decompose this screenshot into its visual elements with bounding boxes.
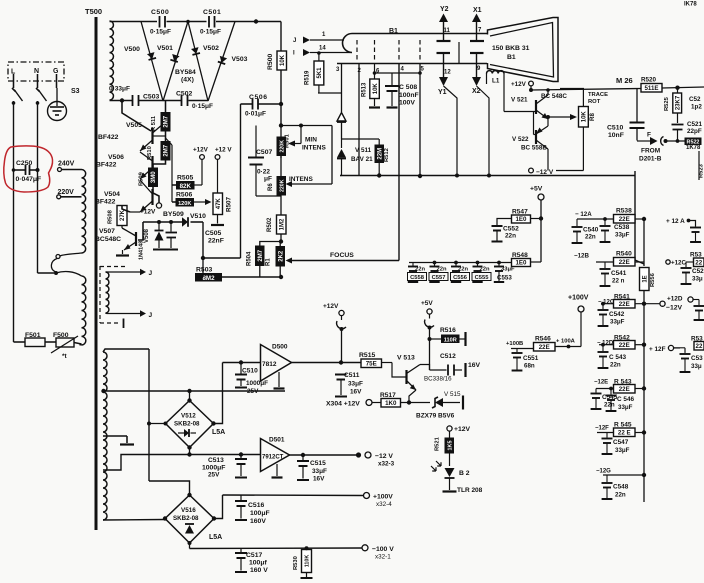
svg-text:1E0: 1E0	[515, 260, 527, 267]
capacitor C541	[604, 262, 606, 268]
svg-text:10K: 10K	[582, 111, 588, 123]
svg-text:R 511: R 511	[151, 115, 157, 131]
svg-text:100μF: 100μF	[250, 510, 270, 517]
svg-text:INTENS: INTENS	[289, 176, 314, 183]
svg-text:+ 12F: + 12F	[649, 346, 666, 353]
svg-text:33μF: 33μF	[615, 232, 630, 239]
svg-text:+12V: +12V	[323, 303, 339, 310]
svg-text:22nF: 22nF	[208, 238, 224, 245]
svg-text:BF422: BF422	[98, 134, 119, 141]
svg-text:−12F: −12F	[595, 426, 609, 432]
svg-text:BY509: BY509	[163, 211, 184, 218]
svg-text:C558: C558	[410, 275, 425, 281]
svg-text:511E: 511E	[644, 85, 658, 92]
terminal block L N G	[8, 62, 64, 81]
svg-text:33μF: 33μF	[501, 267, 515, 273]
svg-text:x32-3: x32-3	[378, 461, 395, 468]
D500 input wire	[223, 362, 261, 364]
svg-text:B1: B1	[507, 54, 516, 61]
EHT secondary winding	[110, 21, 114, 100]
svg-text:V 511: V 511	[355, 147, 372, 154]
svg-text:R1: R1	[266, 258, 272, 266]
wire EHT to R500	[280, 22, 282, 52]
D500 output wire	[292, 362, 362, 364]
svg-text:22E: 22E	[619, 342, 630, 349]
CRT socket outline	[343, 34, 352, 53]
svg-text:8M2: 8M2	[202, 275, 215, 282]
svg-text:+ 12 A: + 12 A	[666, 218, 685, 225]
-12V terminal	[529, 168, 534, 173]
wire pin6 down	[374, 64, 376, 79]
svg-text:1K78: 1K78	[686, 145, 701, 151]
svg-text:0·33μF: 0·33μF	[109, 86, 130, 93]
svg-text:120K: 120K	[178, 201, 191, 207]
svg-text:− 12A: − 12A	[575, 211, 592, 218]
svg-text:R509: R509	[139, 171, 145, 186]
+12V terminal under R509	[156, 203, 161, 208]
svg-text:22n: 22n	[610, 362, 621, 369]
svg-text:22n: 22n	[415, 267, 425, 273]
svg-text:FOCUS: FOCUS	[330, 252, 354, 259]
svg-text:V 515: V 515	[444, 391, 461, 398]
svg-text:R519: R519	[305, 70, 311, 85]
wire L down	[13, 101, 15, 342]
capacitor C517	[240, 549, 242, 553]
svg-text:33μF: 33μF	[312, 468, 327, 475]
svg-text:25V: 25V	[208, 472, 220, 479]
capacitor C53x fragment	[684, 348, 686, 352]
wire pin2 down	[358, 64, 360, 176]
svg-text:SKB2-08: SKB2-08	[174, 421, 200, 428]
svg-text:22 E: 22 E	[618, 430, 631, 437]
svg-text:68n: 68n	[524, 363, 535, 370]
svg-text:C515: C515	[310, 460, 326, 467]
svg-text:C502: C502	[176, 91, 192, 98]
svg-text:L5A: L5A	[212, 429, 225, 436]
wire C506 left elbow down	[240, 104, 242, 258]
svg-text:+100V: +100V	[568, 295, 589, 302]
svg-text:1K0: 1K0	[385, 400, 397, 407]
svg-text:SKB2-08: SKB2-08	[173, 515, 199, 522]
svg-text:220K: 220K	[279, 179, 285, 192]
wire V510 to R503 node	[203, 222, 241, 258]
V522 collector down	[547, 149, 549, 171]
svg-text:R503: R503	[196, 267, 212, 274]
svg-text:R505: R505	[177, 175, 193, 182]
secondary bottom wire to V516	[103, 519, 165, 522]
svg-text:INTENS: INTENS	[302, 145, 327, 152]
R505 R506 left wires	[172, 184, 176, 186]
svg-text:+100B: +100B	[506, 341, 523, 347]
svg-text:7812: 7812	[262, 361, 277, 368]
wire to V511 R512	[342, 138, 380, 140]
svg-text:−12V: −12V	[666, 305, 683, 312]
secondary tap to -12V rail line y455	[103, 455, 260, 471]
svg-text:C538: C538	[614, 224, 630, 231]
wire node x281	[280, 104, 282, 125]
svg-text:22 n: 22 n	[612, 278, 625, 285]
svg-text:R504: R504	[247, 251, 253, 266]
svg-text:16V: 16V	[313, 476, 325, 483]
min intens wiper	[299, 124, 303, 128]
svg-text:+5V: +5V	[421, 300, 433, 307]
V507 base wire	[138, 222, 143, 240]
svg-text:X304 +12V: X304 +12V	[326, 401, 360, 408]
svg-text:C 508: C 508	[399, 84, 417, 91]
transformer T500 primary upper winding	[82, 170, 86, 254]
svg-text:0·15μF: 0·15μF	[200, 29, 221, 36]
svg-text:F: F	[647, 132, 651, 139]
wire to J arrow top	[106, 271, 109, 273]
svg-text:R513: R513	[362, 82, 368, 97]
svg-text:22: 22	[696, 343, 703, 350]
svg-text:−12 V: −12 V	[536, 169, 554, 176]
svg-text:C503: C503	[143, 94, 159, 101]
socket pin dashes	[356, 40, 358, 62]
svg-text:R510: R510	[147, 146, 153, 160]
capacitor C555	[476, 261, 480, 265]
svg-text:0·01μF: 0·01μF	[245, 111, 266, 118]
svg-text:1p2: 1p2	[691, 104, 702, 111]
svg-text:+100V: +100V	[373, 494, 393, 501]
focus wiper arrow	[286, 258, 293, 264]
svg-text:33μF: 33μF	[610, 319, 625, 326]
svg-text:J: J	[293, 38, 296, 44]
svg-text:T500: T500	[85, 7, 102, 16]
svg-text:μF: μF	[264, 176, 272, 183]
svg-text:L1: L1	[492, 78, 500, 85]
svg-text:+12V: +12V	[193, 147, 209, 154]
svg-text:22: 22	[695, 260, 702, 267]
svg-text:L5A: L5A	[209, 534, 222, 541]
svg-text:C500: C500	[151, 9, 169, 16]
svg-text:1E0: 1E0	[515, 216, 527, 223]
svg-text:BC 548C: BC 548C	[541, 93, 567, 100]
svg-text:25V: 25V	[247, 388, 259, 395]
bridge rectifier V512	[166, 401, 214, 448]
X2 deflection arrow	[470, 52, 484, 54]
rail elbow down right	[635, 171, 644, 264]
svg-text:11: 11	[444, 28, 451, 34]
svg-text:C542: C542	[609, 311, 625, 318]
svg-text:V 513: V 513	[397, 355, 415, 362]
svg-text:C505: C505	[205, 230, 221, 237]
regulator D500 7812	[261, 345, 292, 382]
svg-text:BY584: BY584	[175, 69, 196, 76]
-100V line	[190, 547, 363, 550]
svg-text:0·15μF: 0·15μF	[150, 29, 171, 36]
svg-text:R546: R546	[535, 336, 551, 343]
svg-text:160V: 160V	[250, 518, 266, 525]
svg-text:V512: V512	[181, 413, 196, 420]
svg-text:C521: C521	[687, 121, 703, 128]
svg-text:22E: 22E	[619, 301, 630, 308]
svg-text:C53: C53	[691, 355, 703, 362]
svg-text:R506: R506	[176, 192, 192, 199]
svg-text:D201-B: D201-B	[639, 156, 662, 163]
svg-text:V504: V504	[104, 191, 120, 198]
capacitor C529 fragment	[685, 262, 687, 267]
svg-text:FROM: FROM	[641, 148, 660, 155]
capacitor C516	[240, 495, 242, 500]
svg-text:12: 12	[444, 70, 451, 76]
svg-text:1000μF: 1000μF	[202, 465, 225, 472]
svg-text:R500: R500	[267, 54, 274, 70]
svg-text:C510: C510	[607, 125, 623, 132]
svg-text:C541: C541	[611, 270, 627, 277]
svg-text:23K7: 23K7	[675, 95, 681, 110]
svg-text:33μ: 33μ	[692, 276, 703, 283]
svg-text:J: J	[149, 312, 153, 319]
capacitor C548	[606, 475, 608, 482]
bridge rectifier V516	[165, 495, 214, 543]
-12V terminal right	[660, 301, 665, 306]
svg-text:BAV 21: BAV 21	[351, 156, 373, 163]
svg-text:+12V: +12V	[511, 81, 527, 88]
primary tap loop	[60, 253, 82, 256]
capacitor C556	[454, 261, 458, 265]
svg-text:+5V: +5V	[530, 186, 543, 193]
svg-text:110R: 110R	[444, 337, 457, 343]
svg-text:22n: 22n	[615, 492, 626, 499]
C513 node	[239, 452, 243, 456]
svg-text:C52: C52	[692, 268, 704, 275]
capacitor C557	[433, 261, 437, 265]
capacitor C545	[595, 389, 597, 393]
svg-text:BC548C: BC548C	[95, 236, 121, 243]
svg-text:33μF: 33μF	[618, 404, 633, 411]
intens wiper arrow	[286, 181, 293, 187]
long node line y176	[340, 175, 635, 177]
svg-text:C552: C552	[503, 226, 519, 233]
svg-text:B1: B1	[389, 28, 398, 35]
svg-text:C551: C551	[523, 355, 539, 362]
svg-text:C510: C510	[242, 368, 258, 375]
svg-text:160 V: 160 V	[250, 567, 268, 574]
svg-text:−12B: −12B	[574, 253, 589, 260]
svg-text:C516: C516	[248, 502, 264, 509]
svg-text:Y2: Y2	[440, 6, 449, 13]
svg-text:1N4148: 1N4148	[139, 241, 145, 260]
svg-text:100nF: 100nF	[399, 92, 419, 99]
svg-text:22E: 22E	[619, 216, 630, 223]
svg-text:− 12C: − 12C	[598, 300, 615, 306]
capacitor C543	[602, 345, 604, 351]
svg-text:14: 14	[319, 46, 326, 52]
svg-text:2K2: 2K2	[278, 250, 284, 262]
svg-text:X1: X1	[473, 7, 482, 14]
capacitor C538	[604, 219, 606, 225]
coil L1	[487, 71, 505, 74]
svg-text:C 546: C 546	[617, 396, 634, 403]
wire pin5 down	[419, 64, 421, 176]
svg-text:X2: X2	[472, 88, 481, 95]
secondary top wire	[103, 349, 149, 352]
svg-text:V507: V507	[99, 228, 115, 235]
svg-text:C555: C555	[475, 275, 490, 281]
focus vertical to CRT	[398, 64, 400, 261]
ground under V507	[116, 254, 129, 256]
svg-text:3M0: 3M0	[151, 171, 157, 183]
wire EHT junction to V505	[122, 101, 151, 132]
svg-text:+12C: +12C	[671, 260, 686, 267]
V513 collector node	[420, 365, 430, 371]
svg-text:C547: C547	[613, 439, 629, 446]
svg-text:33μF: 33μF	[348, 381, 363, 388]
base tie wire	[504, 111, 536, 113]
svg-text:1K5: 1K5	[447, 441, 453, 451]
V516 connections	[149, 481, 190, 495]
svg-text:C512: C512	[440, 353, 456, 360]
wire fuse row	[14, 341, 26, 343]
svg-text:2M7: 2M7	[164, 144, 170, 156]
svg-text:1E: 1E	[642, 275, 648, 282]
svg-text:150 BKB 31: 150 BKB 31	[492, 45, 530, 52]
svg-text:(4X): (4X)	[181, 77, 194, 84]
svg-text:22n: 22n	[585, 234, 596, 241]
svg-text:10K: 10K	[280, 54, 286, 66]
svg-text:J: J	[149, 270, 153, 277]
svg-text:22pF: 22pF	[687, 128, 702, 135]
Y1 deflection arrow	[437, 52, 451, 54]
svg-text:B 2: B 2	[459, 470, 470, 477]
svg-text:110K: 110K	[305, 555, 311, 568]
svg-text:V503: V503	[232, 56, 248, 63]
wire N down	[37, 101, 39, 273]
svg-text:C553: C553	[497, 275, 512, 282]
svg-text:22n: 22n	[437, 267, 447, 273]
svg-text:TLR 208: TLR 208	[457, 487, 483, 494]
svg-text:22E: 22E	[539, 344, 550, 351]
+100A wire	[555, 346, 581, 348]
resistor R522	[685, 138, 702, 146]
svg-text:M 26: M 26	[616, 76, 633, 85]
svg-text:10nF: 10nF	[608, 132, 624, 139]
ground under LED	[443, 490, 457, 492]
svg-text:− 12D: − 12D	[597, 341, 614, 347]
capacitor C508	[391, 73, 393, 85]
emitter junction to R8	[547, 119, 549, 126]
svg-text:27K: 27K	[120, 209, 126, 221]
svg-text:x32-4: x32-4	[376, 501, 392, 508]
svg-text:−100 V: −100 V	[372, 546, 394, 553]
svg-text:5K1: 5K1	[317, 67, 323, 79]
svg-text:−12G: −12G	[596, 469, 611, 475]
svg-text:2M7: 2M7	[258, 249, 264, 261]
svg-text:R512: R512	[384, 148, 390, 162]
wire R503 row	[195, 276, 203, 278]
svg-text:22M: 22M	[377, 148, 383, 160]
node wire BY509 row	[143, 221, 182, 223]
svg-text:16V: 16V	[468, 362, 481, 369]
svg-text:V500: V500	[124, 46, 140, 53]
svg-text:R525: R525	[664, 96, 670, 111]
CRT funnel	[488, 18, 559, 82]
svg-text:Y1: Y1	[438, 89, 447, 96]
connector +100V x32-4	[364, 493, 370, 499]
deflection return wires	[444, 86, 458, 176]
svg-text:V 521: V 521	[511, 97, 528, 104]
svg-text:7912CT: 7912CT	[262, 455, 284, 461]
svg-text:16V: 16V	[350, 389, 362, 396]
svg-text:−12 V: −12 V	[375, 453, 393, 460]
svg-text:+12V: +12V	[140, 209, 156, 216]
svg-text:R538: R538	[616, 208, 632, 215]
svg-text:100V: 100V	[399, 100, 415, 107]
F from D201-B	[637, 140, 650, 142]
svg-text:R556: R556	[650, 272, 656, 287]
svg-text:V502: V502	[203, 45, 219, 52]
svg-text:1M2: 1M2	[279, 218, 285, 230]
svg-text:+ 100A: + 100A	[556, 339, 576, 345]
svg-text:C501: C501	[203, 9, 221, 16]
R8 top wire	[560, 89, 583, 107]
capacitor C515	[302, 455, 304, 460]
svg-text:R507: R507	[226, 196, 233, 212]
svg-text:C556: C556	[453, 275, 468, 281]
svg-text:R6: R6	[268, 183, 274, 191]
svg-text:C52: C52	[689, 96, 701, 103]
wire to J arrow bottom	[108, 313, 142, 315]
svg-text:C507: C507	[256, 149, 272, 156]
svg-text:10K: 10K	[373, 83, 379, 95]
svg-text:C517: C517	[246, 552, 262, 559]
R8 bottom wire to -12V	[582, 127, 584, 171]
rail and resistor R556	[643, 219, 645, 266]
svg-text:x32-1: x32-1	[375, 554, 391, 561]
secondary right vertical	[148, 349, 150, 481]
svg-text:22n: 22n	[505, 233, 516, 240]
svg-text:22E: 22E	[619, 386, 630, 393]
switch S3	[15, 90, 23, 101]
svg-text:IK78: IK78	[684, 2, 697, 8]
svg-text:R502: R502	[267, 217, 273, 232]
capacitor C553	[497, 261, 501, 265]
svg-text:R516: R516	[440, 327, 456, 334]
svg-text:V510: V510	[190, 213, 206, 220]
svg-text:R540: R540	[616, 251, 632, 258]
svg-text:33μF: 33μF	[615, 447, 630, 454]
EHT bottom wire	[110, 100, 133, 102]
svg-text:D501: D501	[269, 437, 285, 444]
svg-text:C548: C548	[613, 484, 629, 491]
svg-text:1000μF: 1000μF	[246, 380, 268, 387]
capacitor C546	[609, 387, 613, 391]
aux winding dashed box with J arrows	[99, 266, 101, 323]
svg-text:100μf: 100μf	[249, 560, 267, 567]
svg-text:R520: R520	[641, 77, 657, 84]
svg-text:+12D: +12D	[667, 296, 683, 303]
svg-text:22n: 22n	[480, 267, 490, 273]
cap rail	[409, 262, 512, 264]
svg-text:R515: R515	[359, 352, 375, 359]
svg-text:BF422: BF422	[96, 162, 117, 169]
svg-text:2M7: 2M7	[164, 115, 170, 127]
+12V terminal LED	[447, 426, 452, 431]
bridge V512 connections	[149, 423, 166, 425]
capacitor C540	[576, 219, 578, 226]
svg-text:C540: C540	[583, 227, 599, 234]
+100V line	[223, 494, 364, 497]
svg-text:22E: 22E	[619, 259, 630, 266]
svg-text:R530: R530	[293, 556, 299, 570]
svg-text:0·22: 0·22	[257, 169, 270, 176]
svg-text:BZX79 B5V6: BZX79 B5V6	[416, 413, 455, 420]
secondary tap to ground	[103, 435, 127, 437]
EHT zigzag diagonals	[141, 22, 163, 102]
diode white	[337, 113, 346, 122]
svg-text:C513: C513	[208, 457, 224, 464]
